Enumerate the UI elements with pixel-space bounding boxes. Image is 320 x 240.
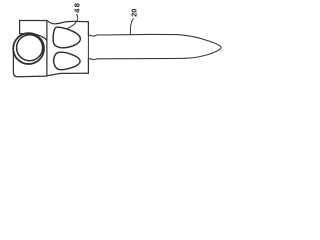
housing body top edge <box>47 20 89 23</box>
housing body right edge <box>87 22 89 73</box>
housing body left edge <box>46 22 48 76</box>
svg-text:20: 20 <box>130 9 139 17</box>
flange ledge <box>20 34 47 41</box>
housing body bottom edge <box>47 73 89 75</box>
bottom tab <box>13 50 46 77</box>
flange top-left bracket <box>20 21 47 34</box>
leader line 48 <box>67 14 78 28</box>
collar ring inner circle <box>17 35 43 61</box>
teardrop cutout bottom <box>54 52 81 69</box>
collar ring outer circle <box>13 33 44 64</box>
leader line 20 <box>130 19 133 34</box>
svg-text:48: 48 <box>72 2 81 13</box>
blade outline <box>88 34 221 59</box>
teardrop cutout top <box>53 27 80 48</box>
